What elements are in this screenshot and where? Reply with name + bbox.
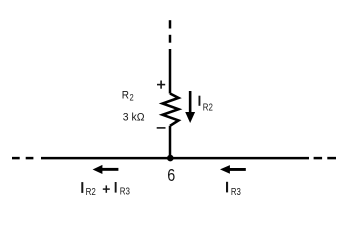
resistor R2 zigzag body [163,94,179,126]
label I_R2 [199,96,214,114]
wire: vertical segment down to resistor top [169,49,172,94]
wire: left dashed continuation [12,157,33,160]
wire: vertical from resistor bottom to node [169,126,172,158]
polarity plus sign (top of R2) [157,81,165,89]
svg-text:2: 2 [130,93,134,103]
svg-text:6: 6 [167,165,175,185]
svg-text:R2: R2 [86,187,96,198]
label I_R2 + I_R3 [81,182,130,198]
current arrow I_R2 (downward beside resistor) [185,91,195,123]
polarity minus sign (bottom of R2) [157,127,166,129]
svg-text:R2: R2 [203,102,213,113]
svg-text:R: R [122,89,129,101]
wire: top dashed vertical continuation [169,20,172,43]
label I_R3 [226,182,241,198]
node junction dot [167,155,174,162]
current arrow I_R2+I_R3 (leftward, left of node) [93,165,119,174]
svg-text:3 kΩ: 3 kΩ [123,112,145,124]
wire: right dashed continuation [314,157,336,160]
svg-text:R3: R3 [120,187,130,198]
svg-text:R3: R3 [231,187,241,198]
current arrow I_R3 (leftward, right of node) [220,165,246,174]
wire: horizontal bus through node 6 [41,157,309,160]
label R2 [122,89,134,102]
